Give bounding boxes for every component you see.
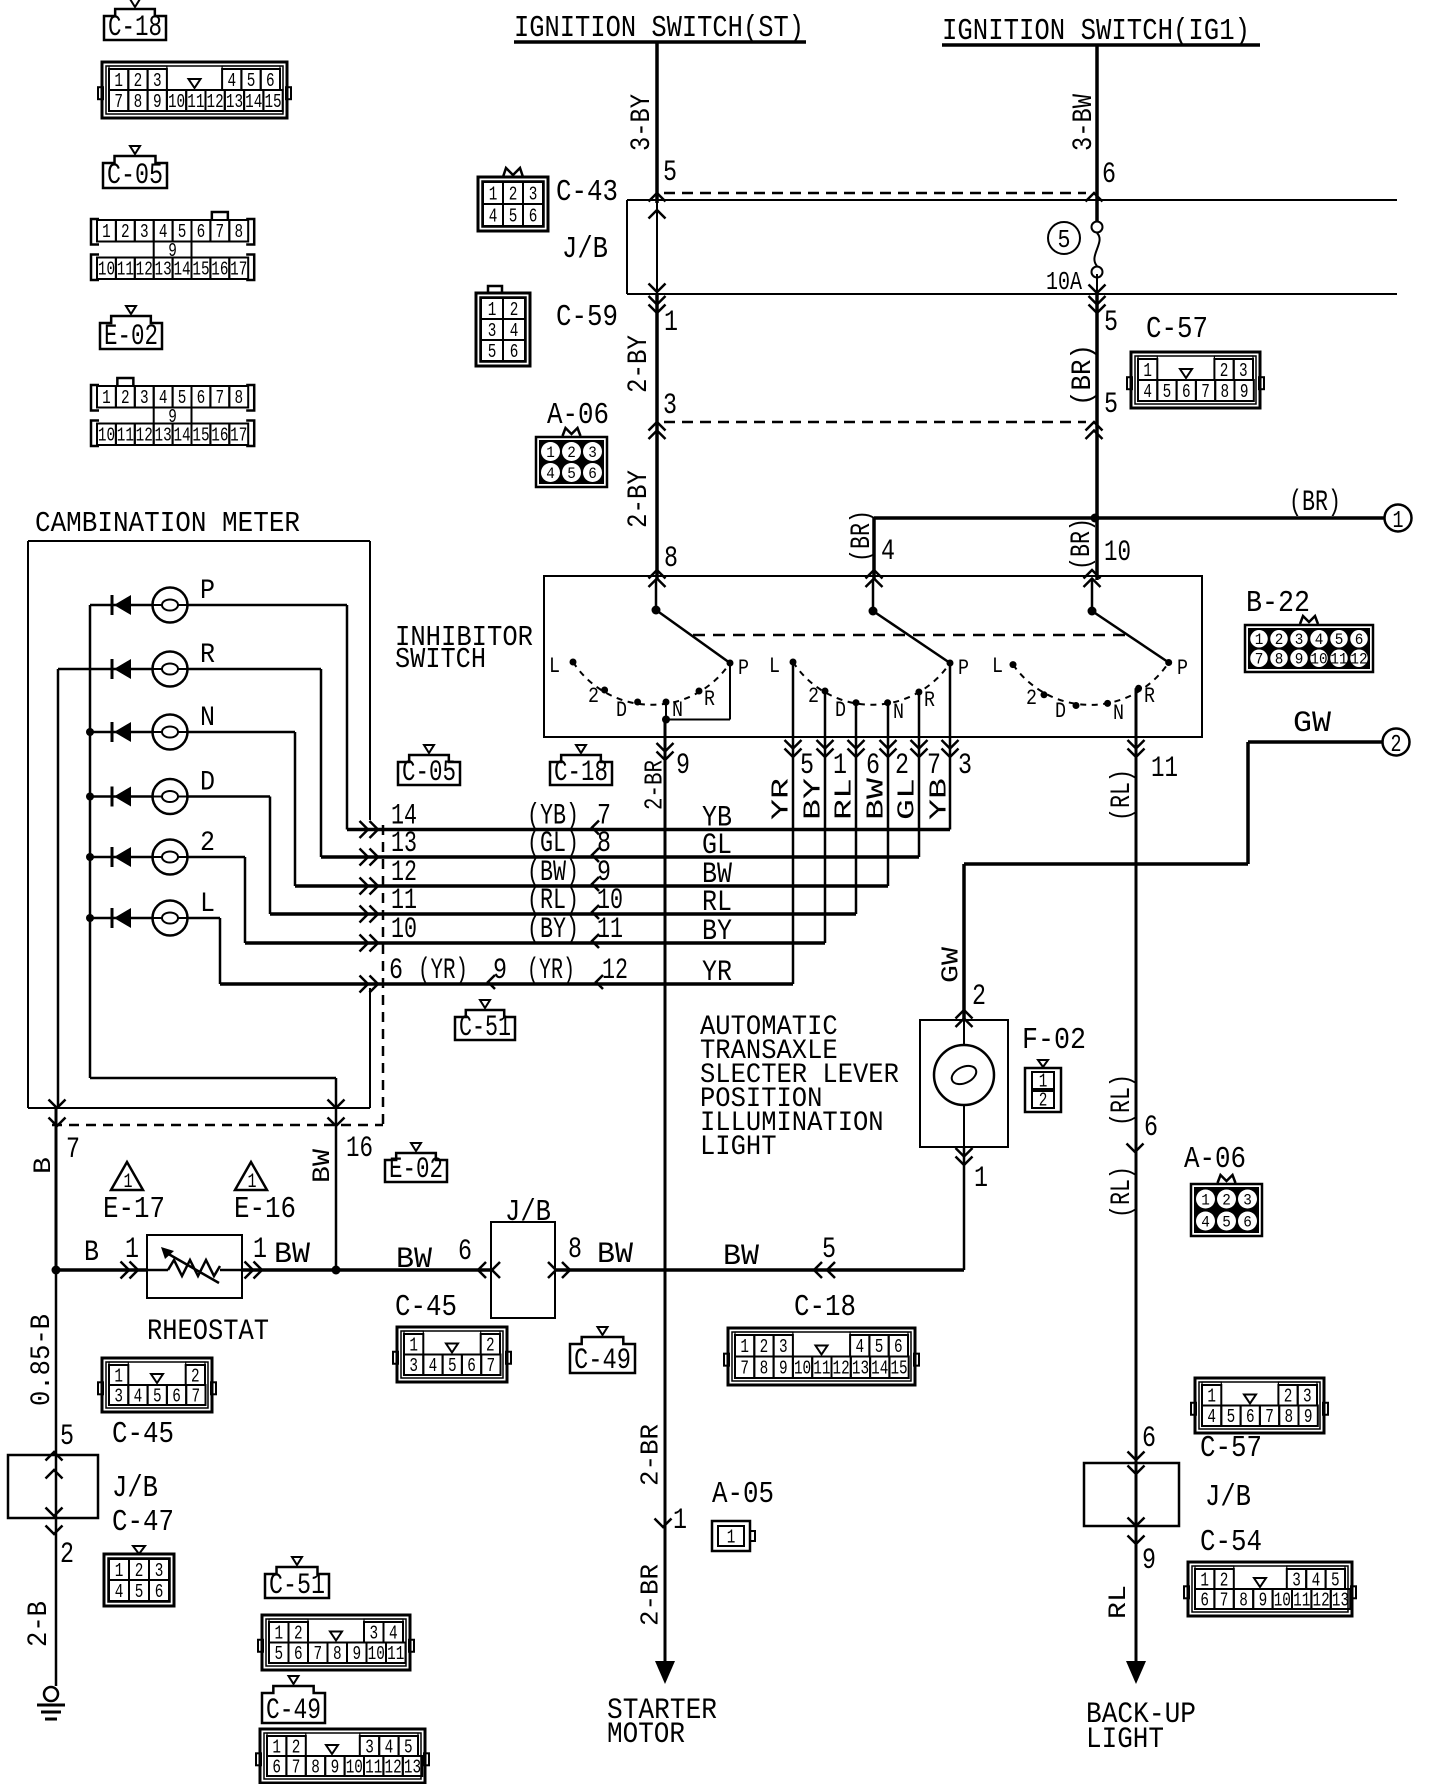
svg-text:15: 15 bbox=[264, 91, 281, 113]
svg-text:J/B: J/B bbox=[562, 232, 608, 267]
svg-text:2-B: 2-B bbox=[24, 1601, 55, 1647]
svg-text:5: 5 bbox=[448, 1355, 457, 1377]
svg-text:E-16: E-16 bbox=[234, 1192, 296, 1227]
pin 3 A-06 bbox=[663, 389, 677, 423]
svg-text:C-18: C-18 bbox=[554, 756, 608, 790]
svg-text:E-02: E-02 bbox=[389, 1153, 443, 1187]
node circled 2 bbox=[1383, 729, 1410, 760]
selector illumination lamp bbox=[934, 1045, 994, 1105]
ground E-17 bbox=[103, 1162, 165, 1227]
pin 5 BW bbox=[822, 1233, 836, 1267]
svg-text:(BR): (BR) bbox=[1067, 518, 1098, 570]
diode L bbox=[112, 908, 131, 928]
svg-text:1: 1 bbox=[489, 183, 498, 205]
svg-text:8: 8 bbox=[664, 542, 678, 576]
svg-text:6: 6 bbox=[272, 1756, 281, 1778]
diode 2 bbox=[112, 847, 131, 867]
svg-text:4: 4 bbox=[159, 221, 168, 243]
svg-text:2: 2 bbox=[1026, 686, 1037, 711]
svg-text:7: 7 bbox=[313, 1643, 322, 1665]
wire lamp to BW line bbox=[905, 1147, 964, 1270]
chevron B above JB bbox=[46, 1452, 63, 1461]
svg-text:3: 3 bbox=[153, 70, 162, 92]
svg-text:2: 2 bbox=[588, 684, 599, 709]
svg-text:3: 3 bbox=[488, 320, 497, 342]
svg-text:7: 7 bbox=[927, 749, 941, 783]
svg-text:5: 5 bbox=[1331, 1569, 1340, 1591]
svg-text:4: 4 bbox=[510, 320, 519, 342]
pin 5 C-57 bbox=[1104, 306, 1118, 340]
wire BR horizontal bbox=[874, 516, 1385, 520]
pin labels unit2 bbox=[800, 749, 972, 783]
dashed mutual line A-06 bbox=[664, 421, 1086, 424]
wire unit2 L down bbox=[792, 662, 795, 984]
label BW 2 bbox=[396, 1243, 432, 1277]
connector C-49 bbox=[256, 1729, 429, 1783]
svg-text:BY: BY bbox=[702, 915, 732, 949]
chevron out of rheostat bbox=[245, 1262, 263, 1279]
svg-text:GL: GL bbox=[895, 778, 922, 820]
labels row 14 bbox=[391, 800, 732, 836]
label A-05 bbox=[712, 1477, 774, 1512]
svg-text:F-02: F-02 bbox=[1022, 1023, 1086, 1058]
label BW 3 bbox=[597, 1238, 633, 1272]
svg-text:RL: RL bbox=[832, 778, 859, 820]
svg-text:6: 6 bbox=[467, 1355, 476, 1377]
diode R bbox=[112, 659, 131, 679]
svg-text:16: 16 bbox=[211, 425, 228, 447]
chevron row 12 bbox=[360, 878, 379, 895]
svg-text:4: 4 bbox=[1201, 1213, 1210, 1231]
wire lamp R to row bbox=[320, 669, 323, 857]
svg-text:3: 3 bbox=[1303, 1386, 1312, 1408]
chevron F-02 pin1 bbox=[956, 1148, 973, 1165]
svg-text:11: 11 bbox=[1293, 1589, 1310, 1611]
svg-text:4: 4 bbox=[1143, 381, 1152, 403]
indicator lamp D bbox=[153, 779, 188, 814]
svg-text:(YR): (YR) bbox=[418, 954, 468, 988]
svg-text:4: 4 bbox=[115, 1581, 124, 1603]
wire through JB mid bbox=[555, 1268, 905, 1272]
chevron JB left bbox=[478, 1262, 500, 1278]
svg-text:2-BR: 2-BR bbox=[635, 1424, 665, 1486]
connector C-54 bbox=[1184, 1562, 1356, 1616]
lamp row D wire bbox=[90, 795, 270, 798]
tab C-51 bottom bbox=[265, 1557, 329, 1603]
label 2-BY lower bbox=[624, 470, 655, 528]
svg-text:MOTOR: MOTOR bbox=[607, 1718, 685, 1752]
svg-text:C-49: C-49 bbox=[574, 1344, 631, 1378]
svg-text:10: 10 bbox=[98, 259, 115, 281]
indicator lamp P bbox=[153, 588, 188, 623]
svg-text:2-BY: 2-BY bbox=[624, 470, 655, 528]
svg-text:3: 3 bbox=[958, 749, 972, 783]
pin 8 inhibitor bbox=[664, 542, 678, 576]
label lamp 2 bbox=[200, 828, 215, 859]
svg-text:6: 6 bbox=[1243, 1213, 1252, 1231]
chevron IG1 at inhibitor bbox=[1084, 570, 1101, 587]
svg-text:9: 9 bbox=[331, 1756, 340, 1778]
svg-text:11: 11 bbox=[813, 1358, 830, 1380]
svg-text:12: 12 bbox=[1313, 1589, 1330, 1611]
svg-text:(BR): (BR) bbox=[1289, 486, 1341, 520]
connector B-22 bbox=[1245, 616, 1373, 672]
svg-text:5: 5 bbox=[1058, 225, 1071, 255]
chevron B below JB bbox=[46, 1526, 63, 1535]
labels row 13 bbox=[391, 827, 732, 863]
svg-text:J/B: J/B bbox=[112, 1471, 158, 1506]
svg-text:2: 2 bbox=[121, 221, 130, 243]
label BW 1 bbox=[274, 1238, 310, 1272]
wire color labels unit2 bbox=[769, 777, 954, 820]
svg-text:6: 6 bbox=[389, 954, 403, 988]
svg-text:7: 7 bbox=[1255, 651, 1264, 669]
svg-text:1: 1 bbox=[664, 306, 678, 340]
svg-text:7: 7 bbox=[1220, 1589, 1229, 1611]
svg-text:R: R bbox=[924, 688, 935, 713]
svg-text:10A: 10A bbox=[1046, 267, 1082, 297]
svg-text:2: 2 bbox=[1391, 732, 1402, 759]
svg-text:7: 7 bbox=[114, 91, 123, 113]
svg-text:9: 9 bbox=[153, 91, 162, 113]
svg-text:1: 1 bbox=[1207, 1386, 1216, 1408]
svg-text:11: 11 bbox=[597, 913, 623, 947]
svg-text:L: L bbox=[200, 889, 215, 920]
label BW rotated bbox=[308, 1149, 337, 1183]
labels row 11 bbox=[391, 884, 732, 920]
wire lamp N to row bbox=[294, 732, 297, 886]
svg-text:5: 5 bbox=[1227, 1406, 1236, 1428]
node circled 1 bbox=[1385, 505, 1412, 536]
wire lamp 2 to row bbox=[244, 857, 247, 943]
svg-text:1: 1 bbox=[272, 1736, 281, 1758]
label J/B top bbox=[562, 232, 608, 267]
label J/B mid bbox=[505, 1195, 551, 1230]
svg-text:6: 6 bbox=[866, 749, 880, 783]
svg-text:7: 7 bbox=[216, 387, 225, 409]
label C-54 bbox=[1200, 1525, 1262, 1560]
svg-text:7: 7 bbox=[216, 221, 225, 243]
svg-text:D: D bbox=[616, 698, 627, 723]
chevron RL in J/B bbox=[1128, 1466, 1145, 1545]
svg-text:2: 2 bbox=[808, 684, 819, 709]
junction block J/B right bbox=[1084, 1463, 1179, 1526]
bus row 14 YB bbox=[347, 828, 950, 832]
label 0.85-B bbox=[27, 1314, 58, 1406]
svg-text:2: 2 bbox=[486, 1335, 495, 1357]
svg-text:10: 10 bbox=[1310, 651, 1327, 669]
chevron ST at inhibitor bbox=[649, 570, 666, 587]
svg-text:1: 1 bbox=[114, 1365, 123, 1387]
svg-text:D: D bbox=[1055, 699, 1066, 724]
tab C-51 mid bbox=[455, 1000, 515, 1045]
svg-text:5: 5 bbox=[800, 749, 814, 783]
svg-text:2: 2 bbox=[895, 749, 909, 783]
svg-text:LIGHT: LIGHT bbox=[700, 1132, 777, 1163]
fuse symbol bbox=[1092, 222, 1103, 278]
svg-text:5: 5 bbox=[1104, 306, 1118, 340]
svg-text:1: 1 bbox=[274, 1623, 283, 1645]
label B bbox=[84, 1236, 99, 1270]
svg-text:5: 5 bbox=[153, 1385, 162, 1407]
diode P bbox=[112, 595, 131, 615]
inhibitor switch box bbox=[544, 576, 1202, 737]
pin 5 C-57 lower bbox=[1104, 388, 1118, 422]
svg-text:3: 3 bbox=[140, 221, 149, 243]
svg-text:B-22: B-22 bbox=[1246, 586, 1310, 621]
chevron row 6 bbox=[360, 976, 379, 993]
pin 4 inhibitor bbox=[881, 535, 895, 569]
wire BR branch left down bbox=[872, 518, 876, 580]
svg-text:8: 8 bbox=[568, 1233, 582, 1267]
svg-text:B: B bbox=[29, 1157, 58, 1174]
svg-text:6: 6 bbox=[266, 70, 275, 92]
svg-text:12: 12 bbox=[136, 425, 153, 447]
pin 6 C-57 label bbox=[1142, 1422, 1156, 1456]
svg-text:14: 14 bbox=[173, 425, 190, 447]
label lamp L bbox=[200, 889, 215, 920]
label 2-BR mid bbox=[635, 1424, 665, 1486]
svg-text:1: 1 bbox=[1393, 508, 1404, 535]
svg-text:3: 3 bbox=[529, 183, 538, 205]
svg-text:12: 12 bbox=[1350, 651, 1367, 669]
svg-text:C-59: C-59 bbox=[556, 300, 618, 335]
svg-text:5: 5 bbox=[1222, 1213, 1231, 1231]
svg-text:6: 6 bbox=[1102, 158, 1116, 192]
svg-text:L: L bbox=[992, 654, 1003, 679]
bus junction dots bbox=[86, 728, 94, 922]
chevron into rheostat bbox=[121, 1262, 139, 1279]
connector A-05 bbox=[712, 1521, 755, 1551]
wire unit2 N down bbox=[887, 703, 890, 886]
svg-text:5: 5 bbox=[404, 1736, 413, 1758]
pin 2 F-02 bbox=[972, 980, 986, 1014]
wire IG1 to pivot3 bbox=[1095, 518, 1099, 580]
svg-text:3: 3 bbox=[1295, 631, 1304, 649]
svg-text:C-57: C-57 bbox=[1200, 1431, 1262, 1466]
svg-text:6: 6 bbox=[197, 221, 206, 243]
chevron ST at dashed2 bbox=[649, 422, 666, 439]
svg-text:6: 6 bbox=[1246, 1406, 1255, 1428]
connector C-18 mid bbox=[724, 1328, 919, 1385]
svg-text:5: 5 bbox=[274, 1643, 283, 1665]
svg-text:C-05: C-05 bbox=[107, 159, 163, 193]
label B rotated bbox=[29, 1157, 58, 1174]
chevron 2-BR mid bbox=[655, 1519, 672, 1528]
svg-text:8: 8 bbox=[333, 1643, 342, 1665]
bus row 13 GL bbox=[321, 855, 919, 859]
svg-text:11: 11 bbox=[187, 91, 204, 113]
wire lamp D to row bbox=[269, 797, 272, 915]
svg-text:R: R bbox=[200, 640, 215, 671]
label C-57 top bbox=[1146, 312, 1208, 347]
label (BR) branch bbox=[847, 510, 878, 562]
svg-text:(RL): (RL) bbox=[1107, 1166, 1138, 1218]
svg-text:4: 4 bbox=[385, 1736, 394, 1758]
svg-text:16: 16 bbox=[346, 1132, 373, 1166]
tab E-02 mid bbox=[385, 1143, 447, 1187]
label 2-BR low bbox=[635, 1564, 665, 1626]
pin 1 A-05 bbox=[673, 1504, 687, 1538]
svg-text:17: 17 bbox=[230, 425, 247, 447]
svg-text:9: 9 bbox=[676, 749, 690, 783]
svg-text:6: 6 bbox=[1144, 1111, 1158, 1145]
connector F-02 symbol bbox=[1025, 1060, 1061, 1112]
svg-text:2: 2 bbox=[1275, 631, 1284, 649]
svg-text:8: 8 bbox=[760, 1358, 769, 1380]
wire unit1 P to N bbox=[662, 663, 730, 724]
svg-text:GW: GW bbox=[1293, 707, 1331, 741]
svg-text:C-51: C-51 bbox=[459, 1011, 511, 1045]
svg-text:2: 2 bbox=[1220, 1569, 1229, 1591]
fuse number circled 5 bbox=[1048, 222, 1080, 255]
svg-text:14: 14 bbox=[871, 1358, 888, 1380]
svg-text:2: 2 bbox=[60, 1538, 74, 1572]
svg-text:1: 1 bbox=[1255, 631, 1264, 649]
svg-text:2: 2 bbox=[509, 183, 518, 205]
svg-text:2: 2 bbox=[121, 387, 130, 409]
wire IG1 to junction bbox=[1095, 294, 1099, 518]
wire lamp P to row bbox=[346, 605, 349, 830]
svg-text:1: 1 bbox=[740, 1336, 749, 1358]
svg-text:CAMBINATION METER: CAMBINATION METER bbox=[35, 507, 300, 540]
svg-text:10: 10 bbox=[368, 1643, 385, 1665]
svg-text:7: 7 bbox=[487, 1355, 496, 1377]
label BW 4 bbox=[723, 1240, 759, 1274]
svg-text:8: 8 bbox=[1285, 1406, 1294, 1428]
svg-text:3: 3 bbox=[409, 1355, 418, 1377]
chevron ST above dashed bbox=[649, 193, 666, 202]
svg-text:(RL): (RL) bbox=[1107, 769, 1138, 821]
pin 1 rheostat right bbox=[253, 1233, 267, 1267]
label INHIBITOR SWITCH bbox=[395, 621, 533, 676]
wire rheostat to JB bbox=[242, 1266, 491, 1275]
connector C-45 left bbox=[98, 1358, 216, 1412]
connector C-45 mid bbox=[393, 1327, 511, 1382]
svg-text:1: 1 bbox=[1200, 1569, 1209, 1591]
pin 6 A-06 label bbox=[1144, 1111, 1158, 1145]
indicator lamp N bbox=[153, 715, 188, 750]
label A-06 bbox=[547, 398, 609, 433]
svg-text:B: B bbox=[84, 1236, 99, 1270]
svg-text:10: 10 bbox=[98, 425, 115, 447]
chevron BW at meter bottom bbox=[328, 1100, 345, 1127]
svg-text:6: 6 bbox=[1200, 1589, 1209, 1611]
svg-text:12: 12 bbox=[833, 1358, 850, 1380]
svg-text:BW: BW bbox=[723, 1240, 759, 1274]
bus row 10 BY bbox=[245, 941, 825, 945]
svg-text:8: 8 bbox=[134, 91, 143, 113]
svg-text:2: 2 bbox=[200, 828, 215, 859]
lamp row 2 wire bbox=[90, 856, 245, 859]
svg-text:13: 13 bbox=[226, 91, 243, 113]
svg-text:11: 11 bbox=[117, 259, 134, 281]
diode N bbox=[112, 722, 131, 742]
svg-text:10: 10 bbox=[1274, 1589, 1291, 1611]
svg-text:BW: BW bbox=[597, 1238, 633, 1272]
svg-text:P: P bbox=[200, 576, 215, 607]
connector C-43 bbox=[478, 168, 548, 231]
svg-text:4: 4 bbox=[227, 70, 236, 92]
svg-text:11: 11 bbox=[117, 425, 134, 447]
svg-text:2: 2 bbox=[972, 980, 986, 1014]
pin 1 C-59 bbox=[664, 306, 678, 340]
svg-text:BW: BW bbox=[396, 1243, 432, 1277]
tab E-02 bbox=[100, 306, 162, 354]
wire unit2 R down bbox=[918, 692, 921, 857]
label 10A bbox=[1046, 267, 1082, 297]
chevron B at meter bottom bbox=[49, 1100, 66, 1127]
chevron RL below box bbox=[1128, 740, 1145, 757]
svg-text:2: 2 bbox=[1220, 360, 1229, 382]
svg-text:3: 3 bbox=[1292, 1569, 1301, 1591]
chevron B in JB bbox=[46, 1470, 63, 1516]
label AUTOMATIC TRANSAXLE... bbox=[700, 1012, 899, 1163]
svg-text:1: 1 bbox=[253, 1233, 267, 1267]
wire IG1 vertical 3-BW bbox=[1095, 45, 1099, 222]
label C-59 bbox=[556, 300, 618, 335]
svg-text:2: 2 bbox=[567, 444, 576, 462]
lamp row P wire bbox=[90, 604, 347, 607]
svg-text:2: 2 bbox=[1039, 1089, 1048, 1111]
svg-text:8: 8 bbox=[1239, 1589, 1248, 1611]
svg-text:2: 2 bbox=[135, 1560, 144, 1582]
svg-text:1: 1 bbox=[114, 70, 123, 92]
svg-text:P: P bbox=[738, 656, 749, 681]
svg-text:9: 9 bbox=[1295, 651, 1304, 669]
pin 5 JB left bbox=[60, 1420, 74, 1454]
chevron unit2 R bbox=[911, 740, 928, 757]
svg-text:6: 6 bbox=[894, 1336, 903, 1358]
wire lamp L to row bbox=[219, 918, 222, 984]
label GW right bbox=[1293, 707, 1331, 741]
svg-text:9: 9 bbox=[1304, 1406, 1313, 1428]
svg-text:5: 5 bbox=[488, 341, 497, 363]
svg-text:9: 9 bbox=[493, 954, 507, 988]
wire unit2 D down bbox=[855, 703, 858, 914]
svg-text:14: 14 bbox=[173, 259, 190, 281]
svg-text:9: 9 bbox=[779, 1358, 788, 1380]
svg-text:9: 9 bbox=[352, 1643, 361, 1665]
label (RL) 2 bbox=[1107, 1074, 1138, 1126]
label 3-BY bbox=[627, 94, 658, 151]
svg-text:SWITCH: SWITCH bbox=[395, 643, 486, 676]
chevron RL at A-06 bbox=[1127, 1144, 1144, 1153]
svg-text:YR: YR bbox=[702, 956, 732, 990]
svg-text:5: 5 bbox=[567, 465, 576, 483]
tab C-18 bbox=[104, 0, 166, 45]
svg-text:(BR): (BR) bbox=[1068, 344, 1099, 406]
svg-text:5: 5 bbox=[1104, 388, 1118, 422]
rheostat element bbox=[147, 1247, 242, 1283]
svg-text:5: 5 bbox=[247, 70, 256, 92]
svg-text:2: 2 bbox=[292, 1736, 301, 1758]
svg-text:7: 7 bbox=[740, 1358, 749, 1380]
inhibitor switch unit 1 bbox=[570, 580, 734, 706]
svg-text:9: 9 bbox=[1259, 1589, 1268, 1611]
svg-text:15: 15 bbox=[890, 1358, 907, 1380]
wire B down bbox=[55, 1270, 58, 1686]
svg-text:11: 11 bbox=[1151, 752, 1178, 786]
connector C-51 bbox=[258, 1615, 414, 1670]
labels row 12 bbox=[391, 856, 732, 892]
chevron IG1 at dashed2 bbox=[1086, 422, 1103, 439]
svg-text:YR: YR bbox=[769, 778, 796, 820]
svg-text:3: 3 bbox=[140, 387, 149, 409]
svg-text:E-17: E-17 bbox=[103, 1192, 165, 1227]
svg-text:1: 1 bbox=[546, 444, 555, 462]
svg-text:C-18: C-18 bbox=[794, 1290, 856, 1325]
